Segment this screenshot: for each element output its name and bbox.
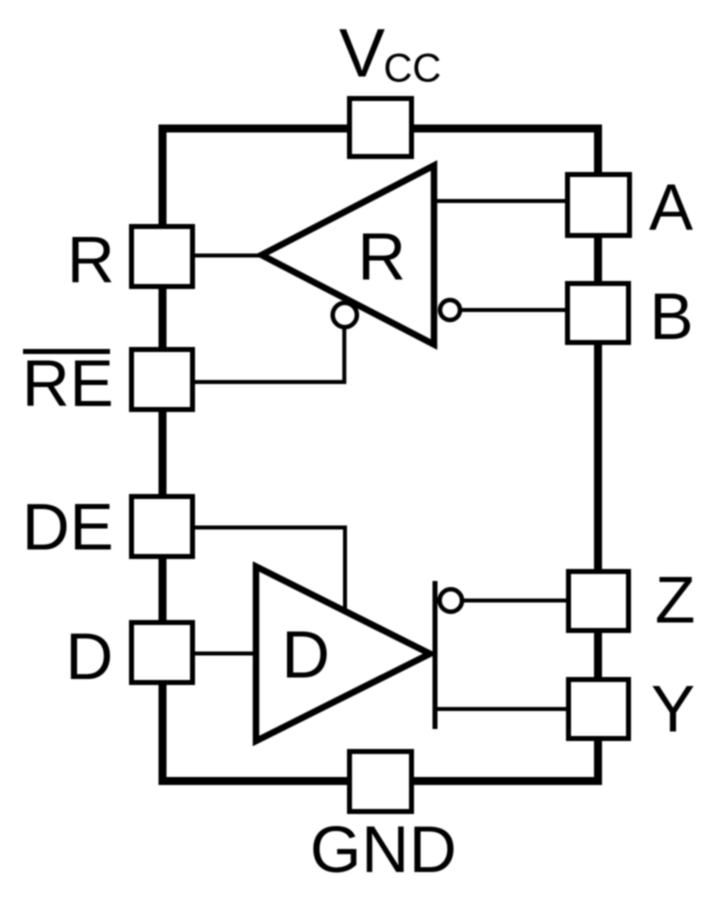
op-amp D driver triangle <box>256 567 430 742</box>
pin RE box <box>132 350 193 410</box>
wire driver output bar <box>433 581 438 729</box>
pin VCC box <box>350 99 412 157</box>
pin GND box <box>350 752 412 812</box>
svg-text:RE: RE <box>22 346 114 420</box>
node receiver enable bubble <box>333 303 357 327</box>
wire R output (receiver apex to R pin) <box>195 254 265 258</box>
wire Z output (driver inverting output bubble to Z pin) <box>450 599 570 603</box>
wire D input (D pin to driver input) <box>195 652 262 656</box>
wire Y output (driver output bar to Y pin) <box>435 707 570 711</box>
pin D box <box>132 623 193 683</box>
wire B input (B pin to receiver inverting input bubble) <box>450 308 570 312</box>
svg-text:D: D <box>66 619 114 693</box>
pin B box <box>568 284 629 343</box>
svg-text:DE: DE <box>22 490 114 564</box>
svg-text:V: V <box>339 15 385 92</box>
op-amp R receiver triangle <box>262 166 435 345</box>
pin A box <box>568 175 630 236</box>
wire outer supply loop (VCC top / GND bottom / left pin rail / right pin rail) <box>163 129 599 782</box>
wire A input (A pin to receiver non-inverting input) <box>430 199 570 203</box>
wire DE enable (DE pin to driver enable) <box>194 528 345 613</box>
svg-text:GND: GND <box>310 812 457 886</box>
wire RE enable (RE pin to receiver enable bubble) <box>194 313 344 382</box>
svg-text:Y: Y <box>651 672 695 746</box>
svg-text:D: D <box>282 618 330 693</box>
node driver Z output bubble <box>440 589 462 611</box>
pin Z box <box>569 572 629 631</box>
svg-text:A: A <box>649 170 693 244</box>
svg-text:CC: CC <box>384 47 442 91</box>
svg-text:Z: Z <box>655 563 695 637</box>
svg-text:B: B <box>650 279 694 353</box>
svg-text:R: R <box>358 220 406 295</box>
pin Y box <box>569 680 629 739</box>
node receiver B input bubble <box>440 300 460 320</box>
svg-text:R: R <box>67 223 115 297</box>
pin R box <box>132 227 193 287</box>
label RE overline <box>23 349 110 354</box>
pin DE box <box>132 497 193 557</box>
